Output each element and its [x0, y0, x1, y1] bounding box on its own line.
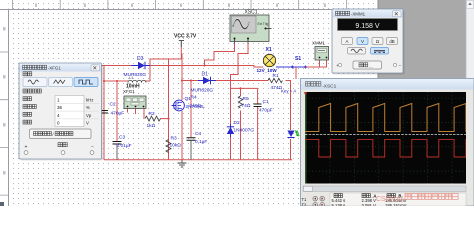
- scope axis line: [305, 134, 466, 136]
- resistor R2 1k: [145, 111, 161, 129]
- wire main top rail: [102, 66, 264, 68]
- svg-text:1N4007G: 1N4007G: [234, 128, 255, 134]
- svg-text:CSDN @: CSDN @: [376, 196, 404, 203]
- diode D2 1N4007G: [227, 120, 255, 137]
- wire R1 right corner: [286, 81, 291, 131]
- svg-text:T1: T1: [302, 197, 308, 202]
- svg-text:10kΩ: 10kΩ: [170, 143, 182, 149]
- multimeter mode buttons: [342, 38, 353, 45]
- wire left loop vertical: [103, 66, 105, 160]
- svg-text:MUR820G: MUR820G: [191, 88, 214, 94]
- instrument XSC1 oscilloscope box: [230, 10, 272, 44]
- power VCC 3.7V: [174, 34, 197, 48]
- svg-text:Ext Trig: Ext Trig: [258, 22, 269, 26]
- wire R5 branch: [240, 88, 242, 159]
- wire D1 row: [182, 80, 268, 82]
- svg-text:-XSC1: -XSC1: [322, 84, 336, 90]
- wire bottom rail: [104, 159, 292, 161]
- svg-text:240Ω: 240Ω: [190, 103, 202, 109]
- svg-text:R2: R2: [149, 111, 155, 117]
- wire R2 row: [144, 109, 169, 119]
- svg-text:C4: C4: [195, 131, 201, 137]
- svg-text:+: +: [25, 145, 28, 151]
- svg-text:Key = A: Key = A: [281, 89, 296, 94]
- scope trigger marker: [304, 92, 307, 95]
- capacitor C1 470uF: [254, 99, 273, 114]
- svg-text:R3: R3: [171, 136, 177, 142]
- svg-text:0.1µF: 0.1µF: [195, 139, 207, 145]
- resistor R3 10k: [166, 136, 181, 153]
- app background right of sheet: [378, 0, 474, 206]
- svg-text:2.398 V: 2.398 V: [362, 198, 377, 203]
- ground symbol: [178, 160, 187, 167]
- wire lamp right to S1 node (blue net): [276, 66, 306, 68]
- scope trace channel B: [305, 139, 466, 157]
- svg-text:−: −: [91, 145, 94, 151]
- svg-text:5.442 s: 5.442 s: [332, 198, 346, 203]
- svg-text:R5: R5: [243, 96, 249, 102]
- svg-text:9.158 V: 9.158 V: [355, 23, 379, 30]
- svg-text:C3: C3: [119, 135, 125, 141]
- svg-text:X1: X1: [266, 47, 272, 53]
- svg-text:R4: R4: [191, 95, 197, 101]
- diode D1 MUR820G: [191, 72, 217, 94]
- wire inductor row: [104, 80, 150, 82]
- lamp X1 12V 10W: [257, 47, 278, 73]
- wire C3 branch: [116, 81, 118, 141]
- wire scope A staircase: [205, 44, 235, 66]
- svg-text:-XFG1: -XFG1: [48, 66, 61, 71]
- scope scroll strip: [303, 186, 466, 192]
- capacitor C3 0.01uF: [113, 135, 132, 160]
- svg-text:XMM1: XMM1: [312, 41, 325, 46]
- svg-text:MUR820G: MUR820G: [124, 72, 147, 78]
- svg-text:L1: L1: [129, 76, 133, 80]
- svg-text:0.01µF: 0.01µF: [117, 143, 132, 149]
- wire C4 branch: [190, 81, 192, 138]
- svg-text:5.138 s: 5.138 s: [332, 203, 346, 206]
- svg-text:D2: D2: [234, 120, 240, 126]
- svg-text:XFG1: XFG1: [123, 89, 135, 94]
- svg-text:%: %: [86, 105, 90, 110]
- svg-text:XSC1: XSC1: [245, 10, 258, 16]
- wire VCC branch: [150, 47, 181, 81]
- resistor R5 74ohm: [238, 96, 251, 109]
- wire XMM1 pin stubs: [320, 60, 327, 67]
- wire output return stub: [295, 67, 297, 79]
- svg-text:C1: C1: [263, 99, 269, 105]
- multimeter display 9.158V: [338, 19, 398, 31]
- vertical scrollbar: [466, 0, 474, 206]
- inductor L1 10mH: [126, 76, 146, 90]
- svg-text:VCC 3.7V: VCC 3.7V: [174, 34, 197, 40]
- svg-text:V: V: [361, 39, 364, 44]
- svg-text:kHz: kHz: [86, 97, 93, 102]
- wire source vertical: [181, 111, 183, 160]
- svg-text:74Ω: 74Ω: [242, 103, 251, 109]
- capacitor C4 0.1uF: [187, 131, 208, 160]
- scope trace channel A: [305, 104, 466, 132]
- svg-text:12V_10W: 12V_10W: [257, 68, 278, 73]
- dialog multimeter XMM1: [334, 11, 405, 75]
- resistor R1 474ohm: [268, 73, 283, 91]
- wire scope B staircase: [231, 44, 249, 89]
- svg-text:36: 36: [57, 105, 63, 110]
- wire S1 node to XMM1: [306, 66, 328, 68]
- svg-text:V: V: [86, 121, 89, 126]
- svg-text:A: A: [346, 39, 349, 44]
- wire drain vertical: [181, 54, 183, 101]
- dialog function generator XFG1: [21, 65, 104, 161]
- LED D5: [287, 131, 299, 138]
- svg-text:D1: D1: [202, 72, 209, 78]
- instrument XMM1 box: [312, 41, 329, 61]
- svg-text:T2: T2: [302, 203, 308, 207]
- sheet border frame: [0, 10, 378, 207]
- svg-text:−: −: [399, 63, 402, 68]
- svg-text:D3: D3: [137, 56, 144, 62]
- wire D2 branch: [230, 88, 232, 159]
- window oscilloscope XSC1: [301, 79, 474, 207]
- svg-text:R1: R1: [273, 73, 279, 79]
- svg-text:470µF: 470µF: [259, 108, 273, 114]
- svg-text:...: ...: [369, 64, 373, 69]
- svg-text:1kΩ: 1kΩ: [147, 123, 156, 129]
- svg-text:185.151mV: 185.151mV: [385, 203, 407, 206]
- svg-text:Vp: Vp: [86, 113, 92, 118]
- instrument XFG1 box: [123, 89, 146, 109]
- wire mid node row: [231, 87, 258, 89]
- svg-text:C2: C2: [110, 102, 116, 108]
- svg-text:-XMM1: -XMM1: [351, 12, 366, 17]
- diode D3 MUR820G: [124, 56, 151, 78]
- wire XFG1 pin stubs: [128, 109, 136, 115]
- svg-text:S1: S1: [295, 56, 301, 62]
- wire LED bottom: [290, 139, 292, 160]
- multimeter AC/DC buttons: [348, 48, 366, 55]
- junction dots: [116, 80, 118, 82]
- wire gate node vertical: [168, 59, 170, 160]
- multimeter settings button: [353, 61, 382, 69]
- svg-text:3.081 V: 3.081 V: [362, 203, 377, 206]
- capacitor C2 470uF: [100, 102, 124, 117]
- svg-text:dB: dB: [389, 39, 394, 44]
- svg-text:470µF: 470µF: [111, 111, 125, 117]
- MOSFET Q1: [172, 100, 185, 111]
- scope screen: [305, 92, 466, 184]
- wire C1 branch: [257, 88, 259, 159]
